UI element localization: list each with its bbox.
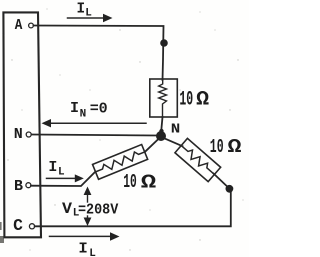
svg-text:10: 10 [123,171,137,193]
svg-text:N: N [14,127,23,143]
svg-text:I: I [77,0,86,18]
svg-text:L: L [89,248,96,257]
svg-text:Ω: Ω [228,136,242,158]
svg-text:Ω: Ω [141,171,157,193]
svg-text:I: I [48,160,57,176]
svg-text:C: C [13,217,23,235]
svg-text:10: 10 [179,88,193,111]
svg-text:10: 10 [210,136,224,158]
svg-text:V: V [62,200,73,218]
svg-text:I: I [70,99,79,117]
svg-text:=0: =0 [90,100,108,118]
svg-text:B: B [14,177,23,195]
svg-text:=208V: =208V [78,200,119,218]
svg-text:N: N [80,109,87,121]
svg-text:L: L [58,167,65,179]
svg-text:L: L [85,8,92,20]
svg-text:N: N [171,122,181,138]
svg-text:I: I [78,240,87,257]
svg-text:Ω: Ω [196,89,209,112]
svg-text:A: A [15,16,23,34]
